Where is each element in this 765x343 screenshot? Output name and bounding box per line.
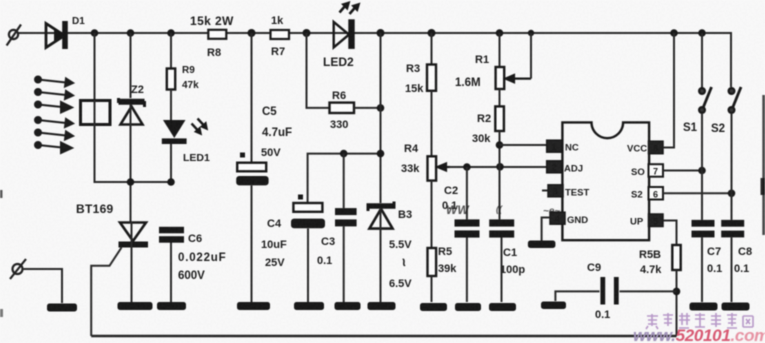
wire supply node y154 (308, 154, 381, 203)
pin 8 (649, 141, 664, 154)
pin 6 (649, 187, 664, 200)
wire S1 to C7 (701, 171, 703, 220)
left edge ticks (0, 190, 3, 198)
ground pad C9 (541, 302, 566, 310)
wire J2 to pad (23, 269, 63, 303)
capacitor C4 electrolytic (291, 195, 325, 229)
wire ADJ from R4 wiper to pin2 (449, 166, 547, 168)
right edge scan streak (762, 95, 765, 235)
resistor R6 (330, 103, 355, 113)
wire NC pin1 (500, 144, 548, 146)
wire S2 to C8 (731, 193, 733, 220)
potentiometer R1 (499, 33, 501, 67)
thyristor BT169 (91, 223, 148, 337)
switch S2 (729, 87, 741, 113)
resistor R9 (167, 69, 175, 90)
wire LED1 to node (170, 144, 172, 182)
wire C6 to pad (170, 243, 172, 303)
diode D1 (46, 21, 68, 49)
capacitor C3 (335, 208, 357, 226)
wire C2 to pad (466, 237, 468, 302)
ground pads bottom row (47, 302, 750, 312)
wire Z2 to SCR (130, 104, 132, 222)
wire rail right corner down to S2 (730, 33, 732, 86)
input terminal J1 (top left) (7, 25, 21, 46)
zener Z2 (119, 98, 145, 125)
potentiometer R4 (428, 156, 437, 180)
wire C3 to pad (343, 226, 345, 302)
capacitor C7 (692, 220, 715, 238)
wire rail node to C5 (251, 33, 253, 162)
wire VCC vertical (663, 33, 674, 148)
gate wire (91, 248, 121, 337)
wire C4 to pad (307, 229, 309, 303)
red watermark Chinese text (646, 313, 753, 329)
blue watermark fragments (446, 203, 564, 217)
wire R6 right to vertical (354, 107, 381, 109)
capacitor C8 (721, 220, 744, 238)
wire vertical rail to R9 (170, 33, 172, 69)
pin 2 (547, 161, 562, 173)
wire LED2 right node vertical down to supply wire (380, 33, 382, 203)
wire R2 down to C1 with node dots (499, 131, 501, 219)
input terminal J2 (bottom left) (10, 259, 26, 279)
wire vertical from rail to sensor box (94, 33, 96, 100)
wire R1 to R2 (499, 89, 501, 106)
wire from box down to node, corner right (95, 125, 172, 183)
wire pin6 to S2 (663, 192, 732, 194)
wire pin4 to gnd pad (542, 218, 550, 241)
resistor R2 (495, 106, 504, 131)
wire C7 to pad (701, 237, 703, 302)
resistor R8 (208, 30, 226, 39)
wire R5 to pad (431, 276, 433, 302)
resistor R5 (428, 248, 437, 276)
pin 5 (649, 214, 664, 227)
pin 4 (550, 212, 565, 224)
bottom rail wire (91, 335, 676, 338)
wire R3 to R4 (431, 91, 433, 157)
pin 3 (542, 190, 548, 192)
node A rail junction dots (91, 29, 706, 37)
wire C1 to pad (501, 237, 503, 302)
node dot R6 right (377, 104, 385, 112)
capacitor C5 electrolytic (236, 153, 268, 186)
wire B3 to pad (380, 208, 382, 302)
wire C3 top (343, 154, 345, 208)
wire top rail (18, 32, 731, 34)
capacitor C1 (489, 219, 514, 237)
pin 1 (547, 140, 562, 152)
ground pad pin4 (528, 241, 556, 249)
wire C2 top (466, 167, 468, 219)
wire C8 to pad (731, 237, 733, 302)
node dots on wire y182 (127, 178, 175, 186)
resistor R7 (271, 30, 290, 39)
wire R5B to bottom rail (676, 270, 678, 336)
wire C5 to pad (251, 186, 253, 303)
pin 7 (649, 164, 664, 177)
zener B3 (367, 202, 396, 229)
wire SCR cathode to pad (131, 222, 133, 302)
switch S1 (701, 33, 703, 88)
wire vertical rail to Z2 (130, 33, 132, 98)
capacitor C6 (159, 227, 184, 243)
capacitor C2 (455, 219, 480, 237)
wire LED2 left node down to R6 (307, 33, 330, 108)
photo sensor box Z1 (81, 101, 111, 125)
IR arrow cluster (sensor rays) (35, 77, 73, 154)
resistor R3 (431, 33, 433, 65)
capacitor C9 (555, 291, 676, 301)
wire pin7 to S1 (663, 170, 702, 172)
resistor R5B (672, 245, 680, 270)
wire R4 to R5 (431, 181, 433, 248)
op IC U1 body (562, 122, 649, 240)
wire R9 to LED1 (170, 90, 172, 121)
LED LED1 (162, 119, 207, 145)
LED LED2 (334, 3, 359, 49)
wire pin5 to R5B (663, 221, 677, 246)
